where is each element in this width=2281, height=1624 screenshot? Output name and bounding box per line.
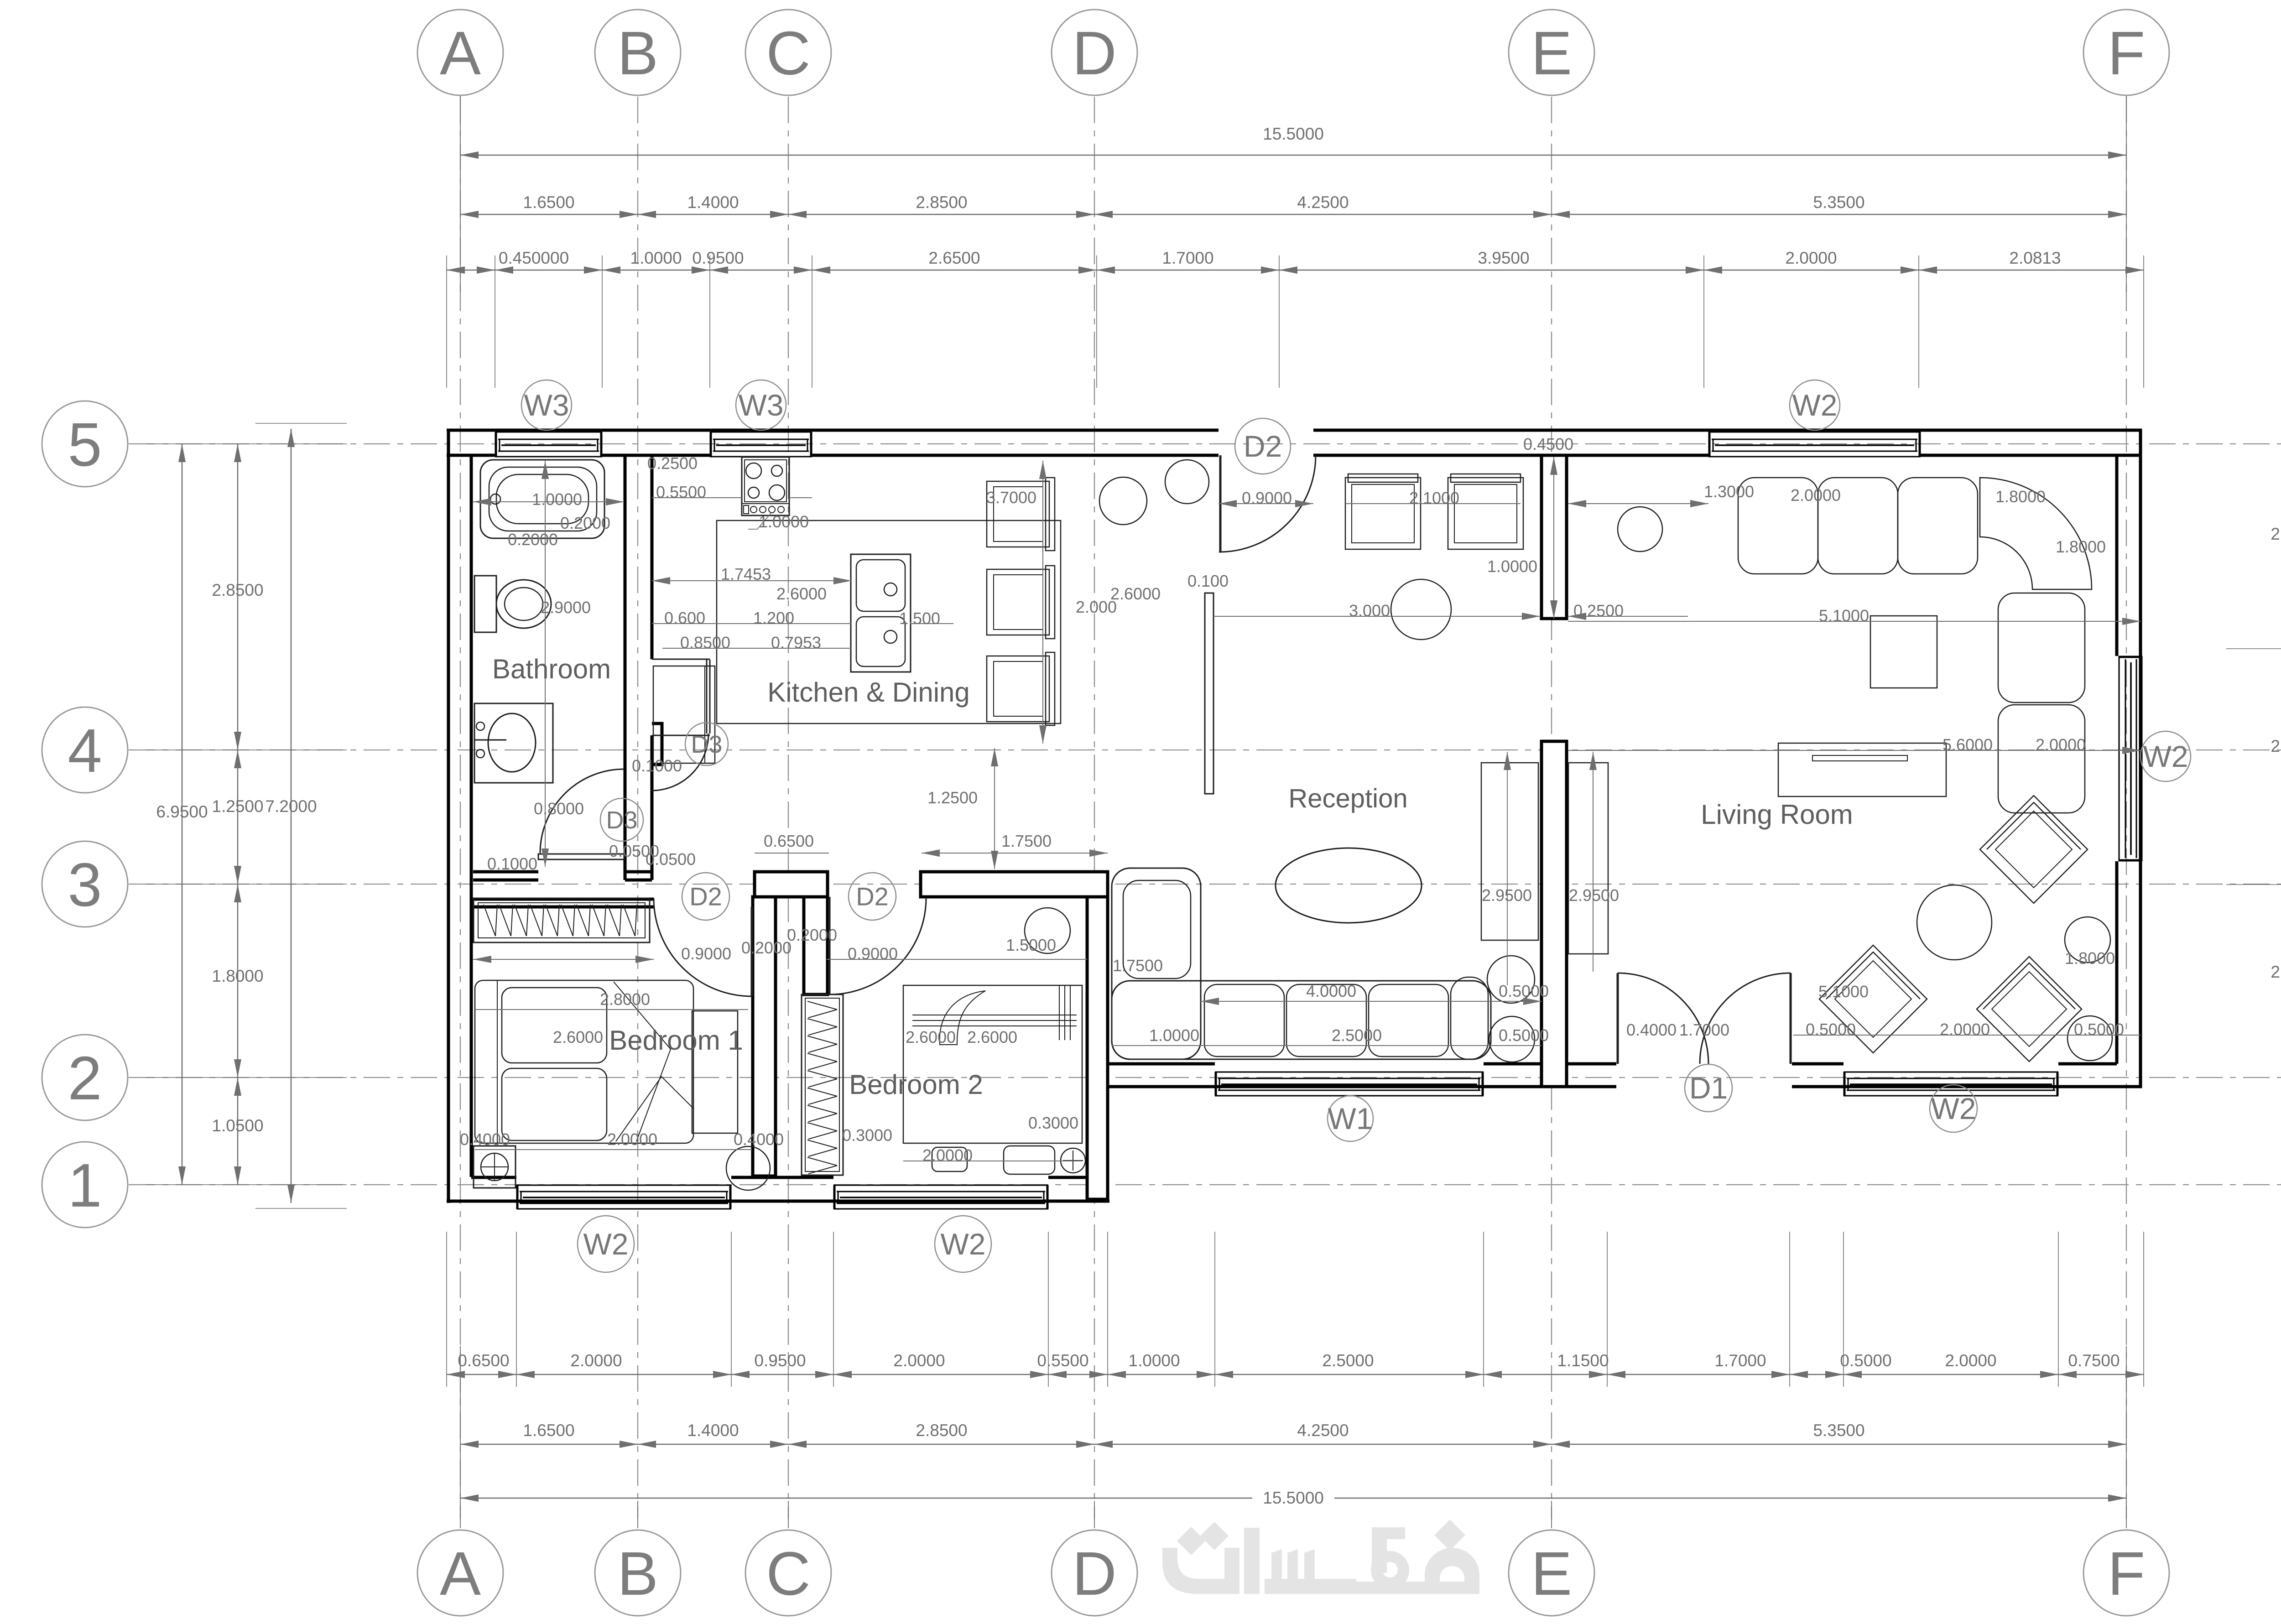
svg-text:1.2500: 1.2500 [212, 797, 263, 816]
svg-text:2.0000: 2.0000 [922, 1146, 973, 1165]
svg-text:2.000: 2.000 [1076, 598, 1117, 616]
svg-text:1.1500: 1.1500 [1557, 1351, 1609, 1370]
svg-text:2.6000: 2.6000 [906, 1028, 956, 1046]
svg-text:1.500: 1.500 [899, 609, 940, 628]
svg-text:0.9000: 0.9000 [681, 944, 731, 963]
svg-text:2.8500: 2.8500 [916, 193, 967, 212]
svg-text:3.000: 3.000 [1349, 601, 1390, 620]
svg-text:1.7000: 1.7000 [1714, 1351, 1766, 1370]
svg-text:Bedroom 2: Bedroom 2 [849, 1069, 983, 1100]
svg-text:0.6500: 0.6500 [764, 832, 814, 850]
svg-text:1.0500: 1.0500 [212, 1116, 263, 1135]
svg-text:0.2000: 0.2000 [741, 938, 792, 957]
svg-text:5: 5 [68, 410, 102, 479]
svg-text:4: 4 [68, 716, 102, 785]
svg-text:2.9000: 2.9000 [541, 598, 591, 617]
svg-text:0.9500: 0.9500 [754, 1351, 806, 1370]
svg-text:2.0500: 2.0500 [2271, 963, 2281, 981]
svg-text:1.7000: 1.7000 [1679, 1020, 1729, 1039]
svg-text:2.0000: 2.0000 [893, 1351, 945, 1370]
svg-text:B: B [617, 19, 658, 88]
svg-text:0.2500: 0.2500 [1573, 601, 1624, 620]
svg-text:5.6000: 5.6000 [1942, 735, 1993, 754]
svg-text:F: F [2108, 1539, 2145, 1608]
svg-text:Living Room: Living Room [1701, 799, 1853, 830]
svg-text:0.3000: 0.3000 [1028, 1114, 1078, 1132]
svg-text:1.3000: 1.3000 [1704, 482, 1754, 501]
svg-text:1.0000: 1.0000 [1149, 1026, 1199, 1045]
svg-text:1.0000: 1.0000 [759, 512, 809, 531]
svg-text:W2: W2 [1931, 1092, 1976, 1125]
svg-text:2.0000: 2.0000 [2271, 737, 2281, 755]
svg-text:3.9500: 3.9500 [1478, 249, 1529, 267]
svg-text:B: B [617, 1539, 658, 1608]
svg-text:1.7453: 1.7453 [721, 565, 771, 583]
svg-text:4.2500: 4.2500 [1297, 1421, 1349, 1440]
svg-text:W2: W2 [583, 1227, 629, 1261]
svg-text:0.1000: 0.1000 [487, 854, 537, 873]
svg-text:0.100: 0.100 [1187, 572, 1229, 590]
svg-text:0.9500: 0.9500 [692, 249, 744, 267]
svg-text:0.9000: 0.9000 [1242, 489, 1292, 507]
svg-text:0.5000: 0.5000 [2074, 1020, 2124, 1039]
svg-text:3.7000: 3.7000 [986, 488, 1036, 507]
svg-text:0.9000: 0.9000 [848, 944, 898, 963]
svg-text:0.2500: 0.2500 [647, 454, 698, 473]
svg-text:0.600: 0.600 [664, 609, 705, 627]
svg-text:1: 1 [68, 1151, 102, 1220]
svg-text:1.7000: 1.7000 [1162, 249, 1213, 267]
svg-text:W2: W2 [2143, 739, 2188, 773]
svg-text:6.9500: 6.9500 [156, 802, 208, 821]
svg-text:5.1000: 5.1000 [1818, 982, 1869, 1001]
svg-text:1.0000: 1.0000 [1487, 557, 1537, 576]
svg-text:Reception: Reception [1288, 784, 1407, 813]
svg-text:2.6000: 2.6000 [776, 584, 827, 603]
svg-text:0.450000: 0.450000 [499, 249, 569, 267]
svg-text:1.7500: 1.7500 [1113, 956, 1163, 975]
svg-text:0.5000: 0.5000 [1806, 1020, 1856, 1039]
svg-text:D2: D2 [856, 882, 889, 911]
svg-text:15.5000: 15.5000 [1263, 125, 1324, 143]
svg-text:0.0500: 0.0500 [646, 850, 696, 869]
svg-text:0.1000: 0.1000 [632, 756, 682, 775]
svg-text:A: A [440, 19, 481, 88]
svg-text:D3: D3 [606, 807, 637, 834]
svg-text:1.0000: 1.0000 [630, 249, 682, 267]
svg-text:2.8000: 2.8000 [600, 990, 650, 1009]
svg-text:0.2000: 0.2000 [560, 514, 610, 532]
svg-text:C: C [766, 1539, 811, 1608]
svg-text:0.5000: 0.5000 [1840, 1351, 1891, 1370]
svg-text:15.5000: 15.5000 [1263, 1489, 1324, 1507]
svg-text:2.6000: 2.6000 [967, 1028, 1017, 1046]
svg-text:1.6500: 1.6500 [523, 193, 574, 212]
svg-text:2.5000: 2.5000 [1322, 1351, 1374, 1370]
svg-text:0.7500: 0.7500 [2068, 1351, 2120, 1370]
svg-text:2: 2 [68, 1044, 102, 1113]
svg-text:1.0000: 1.0000 [532, 490, 582, 509]
svg-text:2.0000: 2.0000 [570, 1351, 622, 1370]
svg-text:D2: D2 [1244, 429, 1282, 463]
svg-text:5.3500: 5.3500 [1813, 193, 1864, 212]
svg-text:2.0000: 2.0000 [1945, 1351, 1996, 1370]
svg-text:D: D [1072, 1539, 1117, 1608]
svg-text:2.0000: 2.0000 [1940, 1020, 1990, 1039]
svg-text:0.4000: 0.4000 [734, 1130, 784, 1149]
svg-text:W1: W1 [1328, 1102, 1373, 1135]
svg-text:3: 3 [68, 850, 102, 919]
svg-text:0.5000: 0.5000 [1499, 982, 1549, 1000]
svg-text:2.6500: 2.6500 [928, 249, 980, 267]
svg-text:0.4000: 0.4000 [460, 1130, 510, 1149]
svg-text:D2: D2 [689, 882, 722, 911]
svg-text:Kitchen & Dining: Kitchen & Dining [767, 677, 970, 708]
svg-text:A: A [440, 1539, 481, 1608]
svg-text:4.0000: 4.0000 [1306, 982, 1356, 1000]
svg-text:4.2500: 4.2500 [1297, 193, 1349, 212]
svg-text:W3: W3 [524, 388, 569, 422]
svg-text:Bedroom 1: Bedroom 1 [609, 1025, 743, 1056]
svg-text:2.0000: 2.0000 [1791, 486, 1841, 505]
svg-text:W2: W2 [941, 1227, 986, 1261]
svg-text:E: E [1531, 1539, 1572, 1608]
svg-text:2.0813: 2.0813 [2009, 249, 2061, 267]
svg-text:2.1000: 2.1000 [1409, 489, 1459, 507]
svg-text:W3: W3 [739, 388, 784, 422]
svg-text:2.0500: 2.0500 [2271, 525, 2281, 543]
svg-text:7.2000: 7.2000 [265, 797, 317, 816]
svg-text:2.9500: 2.9500 [1482, 886, 1532, 905]
svg-text:W2: W2 [1792, 388, 1838, 422]
svg-text:1.8000: 1.8000 [1995, 487, 2046, 506]
svg-text:0.5500: 0.5500 [656, 483, 706, 501]
svg-text:0.8500: 0.8500 [680, 633, 730, 652]
svg-text:0.8000: 0.8000 [534, 799, 584, 818]
svg-text:2.5000: 2.5000 [1332, 1026, 1382, 1045]
svg-text:0.2000: 0.2000 [508, 530, 558, 549]
svg-text:F: F [2108, 19, 2145, 88]
svg-text:D3: D3 [691, 731, 722, 758]
svg-text:2.0000: 2.0000 [607, 1130, 657, 1149]
svg-text:2.0000: 2.0000 [1785, 249, 1837, 267]
svg-text:Bathroom: Bathroom [492, 654, 611, 684]
svg-text:0.7953: 0.7953 [771, 633, 821, 652]
svg-text:2.6000: 2.6000 [553, 1028, 603, 1046]
svg-text:2.8500: 2.8500 [916, 1421, 967, 1440]
svg-text:1.200: 1.200 [753, 609, 794, 627]
svg-text:0.6500: 0.6500 [458, 1351, 509, 1370]
svg-text:5.3500: 5.3500 [1813, 1421, 1864, 1440]
svg-text:1.6500: 1.6500 [523, 1421, 574, 1440]
svg-text:2.6000: 2.6000 [1110, 584, 1161, 603]
svg-text:1.2500: 1.2500 [927, 788, 978, 807]
svg-text:0.3000: 0.3000 [842, 1126, 892, 1145]
svg-text:0.4500: 0.4500 [1523, 435, 1573, 453]
svg-text:0.5000: 0.5000 [1499, 1026, 1549, 1045]
svg-text:5.1000: 5.1000 [1819, 606, 1869, 625]
svg-text:1.4000: 1.4000 [687, 193, 739, 212]
svg-text:E: E [1531, 19, 1572, 88]
svg-text:0.5500: 0.5500 [1037, 1351, 1088, 1370]
svg-text:1.4000: 1.4000 [687, 1421, 739, 1440]
svg-text:0.2000: 0.2000 [787, 926, 837, 944]
svg-text:1.0000: 1.0000 [1128, 1351, 1180, 1370]
svg-text:1.8000: 1.8000 [212, 967, 263, 985]
svg-text:D: D [1072, 19, 1117, 88]
svg-text:2.8500: 2.8500 [212, 581, 263, 599]
svg-text:C: C [766, 19, 811, 88]
svg-text:0.4000: 0.4000 [1626, 1020, 1677, 1039]
svg-text:2.0000: 2.0000 [2036, 735, 2086, 754]
svg-text:2.9500: 2.9500 [1569, 886, 1619, 905]
svg-text:1.8000: 1.8000 [2056, 537, 2106, 556]
svg-text:1.5000: 1.5000 [1006, 936, 1056, 954]
svg-text:1.7500: 1.7500 [1001, 832, 1052, 850]
svg-text:D1: D1 [1689, 1071, 1728, 1105]
svg-text:1.8000: 1.8000 [2065, 949, 2115, 968]
